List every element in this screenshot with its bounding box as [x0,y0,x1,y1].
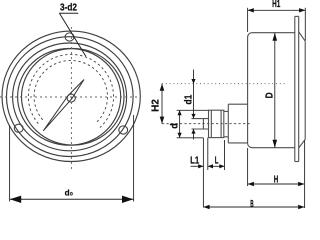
svg-text:d1: d1 [184,94,195,104]
svg-text:3-d2: 3-d2 [60,2,77,13]
svg-text:o: o [70,192,73,198]
svg-text:L: L [215,156,219,167]
svg-text:H2: H2 [151,99,162,112]
svg-text:D: D [264,92,275,98]
svg-text:d: d [170,123,181,129]
svg-text:L1: L1 [190,156,200,167]
svg-text:B: B [250,199,253,210]
svg-text:d: d [65,189,70,198]
svg-text:H1: H1 [272,0,281,10]
svg-text:H: H [274,174,279,185]
